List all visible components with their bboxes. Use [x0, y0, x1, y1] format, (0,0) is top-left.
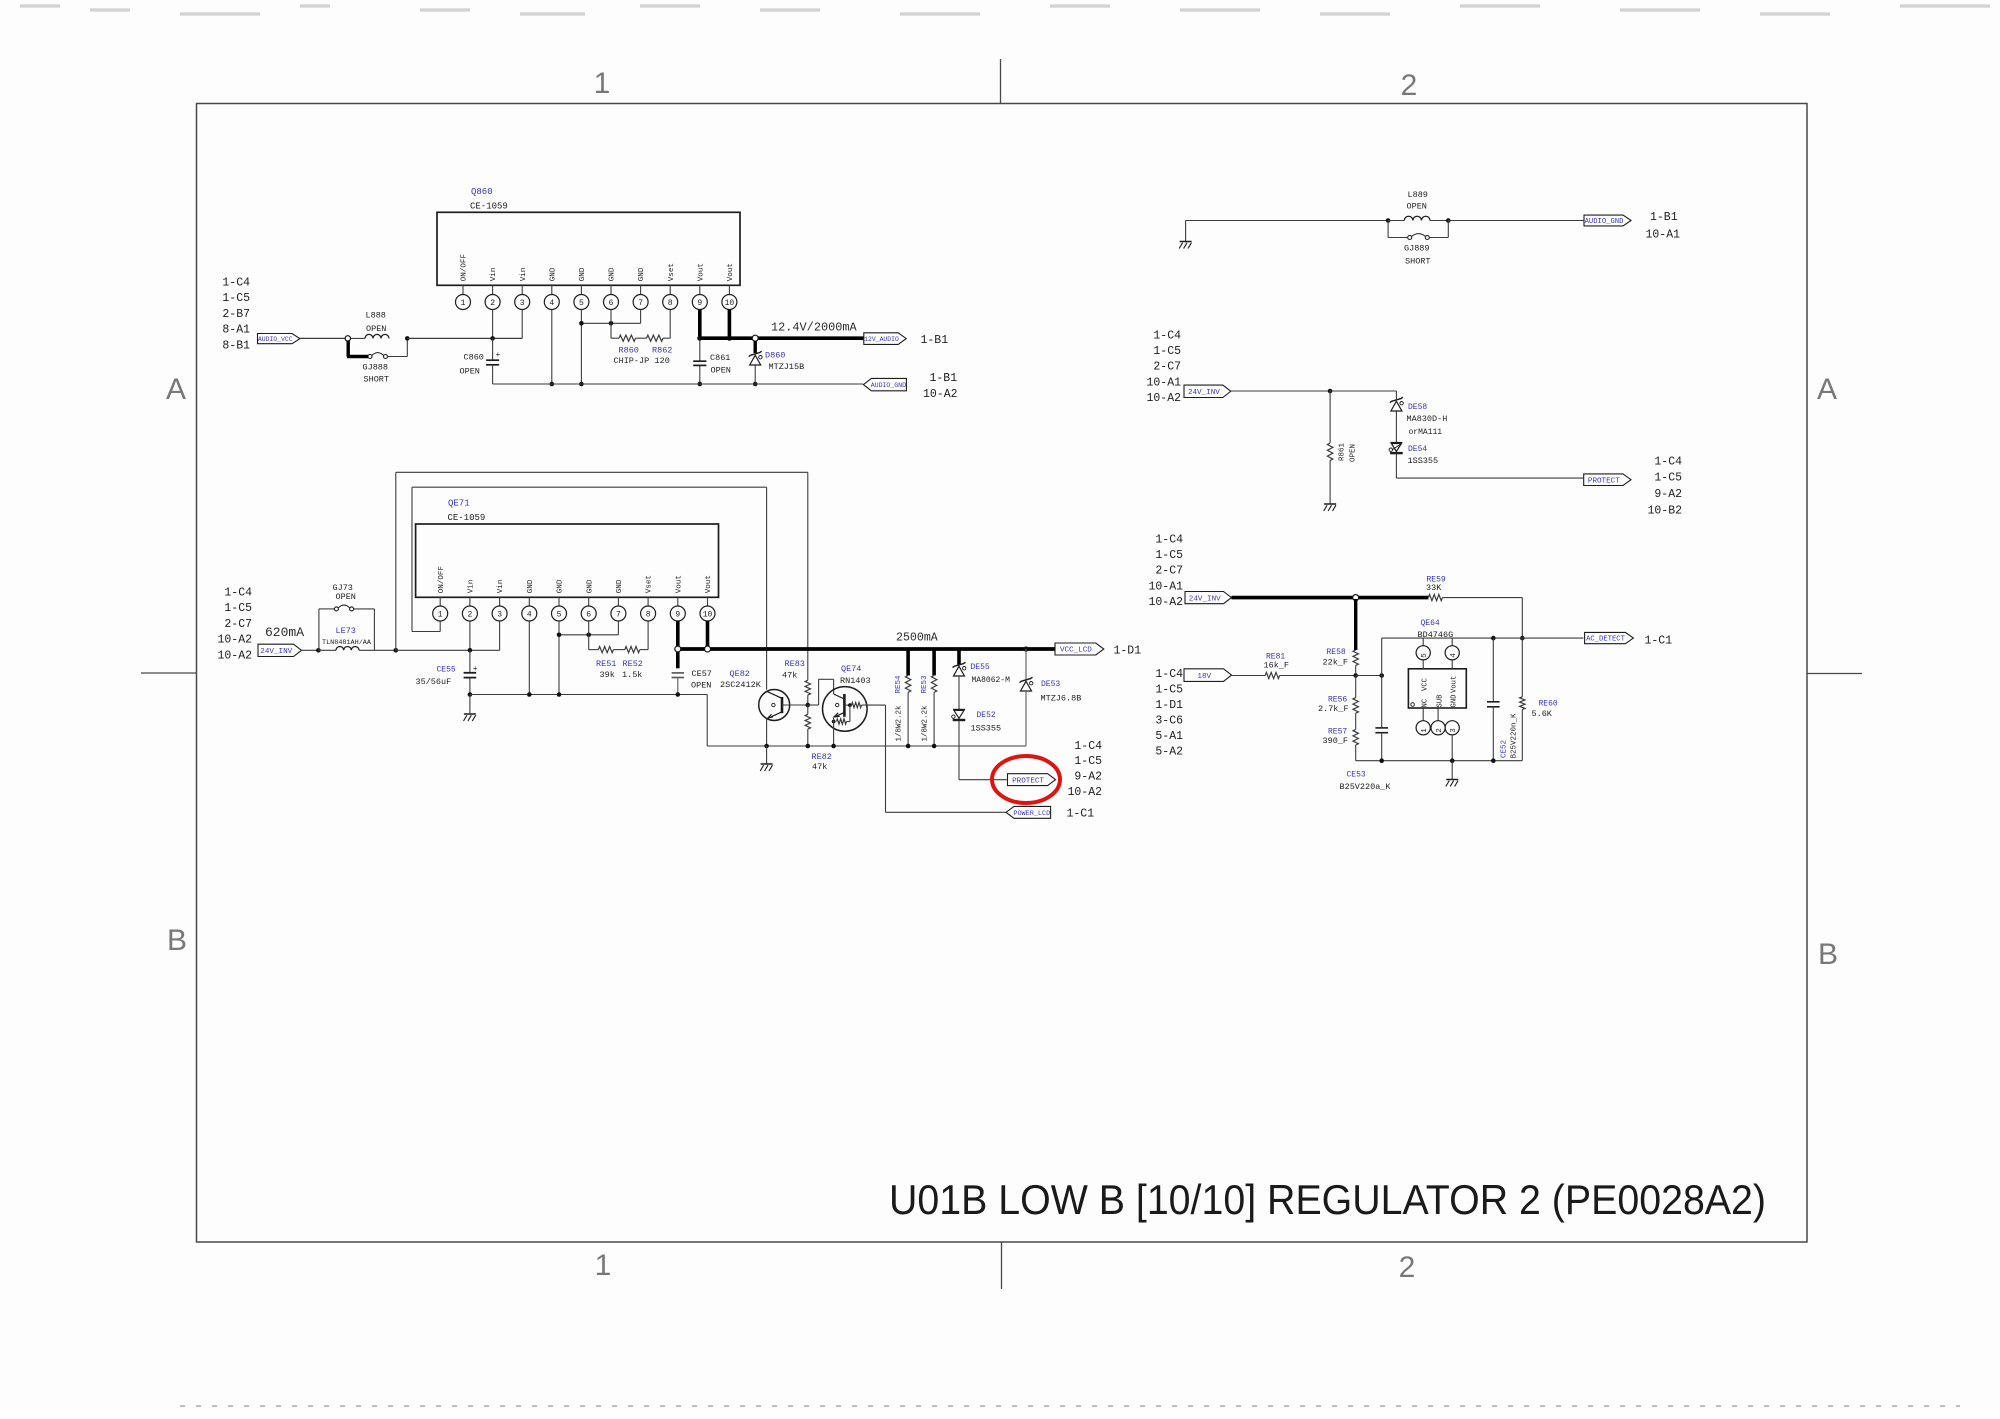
svg-text:OPEN: OPEN	[366, 324, 386, 334]
wire pin10 thick to 12V bus	[728, 310, 732, 341]
svg-text:7: 7	[616, 610, 621, 619]
svg-text:4: 4	[1450, 653, 1458, 658]
pin 10 (Vout)	[707, 597, 709, 606]
resistor RE81 (16k_F)	[1265, 672, 1279, 678]
svg-text:GND: GND	[616, 579, 624, 593]
svg-text:8: 8	[646, 610, 651, 619]
svg-text:ON/OFF: ON/OFF	[461, 254, 469, 282]
svg-text:MA8062-M: MA8062-M	[972, 676, 1011, 685]
svg-text:35/56uF: 35/56uF	[416, 677, 452, 687]
svg-text:Vout: Vout	[1451, 676, 1459, 693]
svg-text:RE53: RE53	[921, 675, 929, 694]
svg-text:L888: L888	[366, 311, 386, 321]
jumper GJ73 (OPEN) on top edge	[334, 607, 338, 611]
wire DE54 to PROTECT	[1395, 454, 1397, 478]
svg-text:1-B1: 1-B1	[921, 334, 949, 347]
svg-text:10: 10	[725, 299, 735, 308]
resistor RE57 (390_F) vertical	[1355, 713, 1357, 729]
wire pin9 thick to 12V bus	[698, 310, 702, 341]
wire flag to LE73	[302, 649, 319, 651]
svg-text:QE82: QE82	[730, 669, 750, 679]
svg-text:RE58: RE58	[1327, 648, 1346, 657]
wire 24V_INV to R861 node	[1231, 390, 1330, 392]
pin 3 (Vin)	[521, 285, 523, 294]
svg-text:1-D1: 1-D1	[1155, 699, 1183, 712]
net flag PROTECT circled	[1008, 774, 1056, 786]
svg-text:10-A2: 10-A2	[1146, 392, 1181, 405]
svg-text:GND: GND	[586, 579, 594, 593]
junction pin3 rail	[1450, 758, 1455, 763]
svg-text:6: 6	[609, 299, 614, 308]
pin 9 (Vout)	[699, 285, 701, 294]
svg-text:12V_AUDIO: 12V_AUDIO	[864, 336, 899, 343]
svg-text:2: 2	[490, 299, 495, 308]
svg-text:AUDIO_VCC: AUDIO_VCC	[258, 336, 293, 343]
resistor RE51 (39k)	[598, 647, 613, 653]
wire to DE58 corner	[1330, 390, 1396, 392]
svg-text:1-C4: 1-C4	[222, 277, 250, 290]
junction CE55 gnd rail	[468, 692, 473, 697]
svg-text:CE52: CE52	[1501, 740, 1509, 758]
svg-text:1/8W2.2k: 1/8W2.2k	[922, 705, 930, 742]
svg-text:RE83: RE83	[785, 659, 805, 669]
wire pin4 down to AUDIO_GND rail	[551, 310, 553, 385]
svg-text:B: B	[1818, 938, 1838, 971]
svg-text:390_F: 390_F	[1323, 736, 1349, 746]
transistor QE82 (2SC2412K)	[759, 690, 790, 721]
node open circle at L888 input	[345, 336, 350, 341]
pin 7 (GND)	[640, 285, 642, 294]
node circle D860 on bus	[752, 335, 758, 341]
svg-text:OPEN: OPEN	[1350, 444, 1358, 462]
svg-text:NC: NC	[1422, 698, 1430, 707]
QE64 pin 4 (Vout)	[1451, 638, 1453, 646]
AUDIO_GND rail	[493, 383, 863, 385]
diode D860 (MTZJ15B zener)	[754, 341, 757, 353]
wire CE53 column up to AC line, down to rail	[1381, 638, 1383, 675]
diode DE53 (MTZJ6.8B zener)	[1025, 649, 1027, 680]
svg-text:GND: GND	[557, 579, 565, 593]
wire pin5 down	[558, 621, 560, 695]
svg-text:QE71: QE71	[448, 499, 470, 509]
svg-text:1-B1: 1-B1	[930, 372, 958, 385]
svg-text:3-C6: 3-C6	[1155, 715, 1183, 728]
svg-text:10-A2: 10-A2	[923, 388, 958, 401]
svg-text:GND: GND	[638, 267, 646, 281]
svg-text:10-A1: 10-A1	[1148, 580, 1183, 593]
svg-text:GND: GND	[1451, 695, 1459, 708]
ground symbol under QE82	[766, 746, 768, 764]
svg-text:10-A2: 10-A2	[217, 649, 252, 662]
svg-text:2-C7: 2-C7	[1153, 361, 1181, 374]
node circle pin10 bus	[705, 646, 711, 652]
wire node to CE53 column	[1356, 675, 1382, 677]
net flag 24V_INV right	[1185, 592, 1232, 604]
junction R861 top	[1328, 389, 1333, 394]
junction DE53 bus	[1023, 646, 1028, 651]
svg-text:TLN8481AH/AA: TLN8481AH/AA	[322, 639, 372, 647]
diode DE55 (MA8062-M)	[957, 649, 961, 665]
resistor R861 (OPEN) vertical	[1329, 391, 1331, 443]
svg-text:1/8W2.2k: 1/8W2.2k	[896, 705, 904, 742]
svg-text:39k: 39k	[600, 670, 615, 680]
QE64 pin 3 (GND)	[1445, 721, 1459, 735]
wire L888 node to pin2/pin3	[407, 337, 522, 339]
svg-text:9-A2: 9-A2	[1074, 771, 1102, 784]
capacitor CE55 (35V/56uF polarized)	[469, 650, 471, 673]
24V_INV thick bus right	[1232, 596, 1429, 600]
wire pin2 down	[492, 310, 494, 339]
jumper GJ889 (SHORT) below	[1387, 221, 1389, 238]
svg-text:AUDIO_GND: AUDIO_GND	[1585, 218, 1624, 226]
svg-text:Vin: Vin	[520, 268, 528, 282]
svg-text:OPEN: OPEN	[336, 592, 356, 602]
junction tie pin6	[586, 633, 591, 638]
svg-text:CE-1059: CE-1059	[470, 202, 508, 212]
capacitor CE53 (B25V220a_K)	[1375, 727, 1388, 729]
net flag 18V	[1184, 669, 1232, 682]
svg-text:Q860: Q860	[471, 187, 493, 197]
wire base node step to QE74	[808, 704, 819, 706]
svg-text:R861: R861	[1339, 442, 1347, 461]
svg-text:47k: 47k	[812, 762, 827, 772]
AC_DETECT junctions	[1491, 636, 1496, 641]
svg-text:9: 9	[675, 610, 680, 619]
svg-text:Vin: Vin	[468, 580, 476, 594]
svg-text:2: 2	[1399, 1251, 1416, 1284]
svg-text:A: A	[1817, 373, 1837, 406]
svg-text:2500mA: 2500mA	[896, 632, 938, 645]
inductor L889 (OPEN)	[1388, 220, 1404, 222]
wire pins5-6-7 tie	[559, 634, 618, 636]
svg-text:2.7k_F: 2.7k_F	[1318, 704, 1349, 714]
resistor RE52 (1.5k)	[625, 647, 640, 653]
svg-text:DE55: DE55	[971, 663, 990, 672]
svg-text:RE82: RE82	[812, 752, 832, 762]
junction pin4 gnd	[527, 692, 532, 697]
svg-text:24V_INV: 24V_INV	[1188, 389, 1220, 397]
svg-text:5: 5	[557, 610, 562, 619]
resistor RE60 (5.6K) vertical	[1521, 638, 1523, 697]
pin 10 (Vout)	[728, 285, 730, 294]
svg-text:MA830D-H: MA830D-H	[1407, 414, 1448, 424]
svg-text:DE53: DE53	[1041, 680, 1060, 689]
red circle highlight around PROTECT	[992, 756, 1060, 803]
pin 1 (ON/OFF)	[462, 285, 464, 294]
wire gnd to L889	[1186, 220, 1389, 222]
IC QE64 body (BD4746G)	[1408, 669, 1466, 708]
svg-text:5: 5	[579, 299, 584, 308]
resistor RE82 (47k) vertical	[807, 705, 809, 714]
wire RE51 to RE52	[613, 649, 624, 651]
svg-text:2-C7: 2-C7	[1155, 565, 1183, 578]
svg-text:Vout: Vout	[697, 263, 705, 281]
svg-text:47k: 47k	[782, 670, 797, 680]
row tick right	[1807, 673, 1862, 675]
junction RE82 rail	[806, 744, 811, 749]
svg-text:OPEN: OPEN	[1407, 202, 1427, 212]
resistor RE56 (2.7k_F) vertical	[1355, 676, 1357, 698]
junction pin5 gnd rail	[579, 382, 584, 387]
svg-text:24V_INV: 24V_INV	[1189, 595, 1221, 603]
svg-text:9: 9	[697, 299, 702, 308]
svg-text:1-C5: 1-C5	[1155, 549, 1183, 562]
svg-text:1-C1: 1-C1	[1645, 635, 1673, 648]
svg-text:1: 1	[594, 67, 611, 100]
svg-text:5-A2: 5-A2	[1155, 746, 1183, 759]
svg-text:1-C4: 1-C4	[1153, 330, 1181, 343]
svg-text:3: 3	[520, 299, 525, 308]
svg-text:10-A1: 10-A1	[1146, 376, 1181, 389]
junction RE58/RE56 node	[1353, 673, 1358, 678]
net flag VCC_LCD	[1055, 643, 1104, 655]
pin 7 (GND)	[617, 597, 619, 606]
svg-text:GND: GND	[549, 267, 557, 281]
pin 3 (Vin)	[499, 597, 501, 606]
diode DE58 (MA830D-H)	[1395, 391, 1397, 400]
svg-text:Vout: Vout	[705, 575, 713, 593]
svg-text:1SS355: 1SS355	[971, 724, 1002, 734]
svg-text:1-C4: 1-C4	[1155, 534, 1183, 547]
wire pin6 down to resistor row	[610, 310, 612, 324]
svg-text:1SS355: 1SS355	[1408, 456, 1439, 466]
svg-text:1-C4: 1-C4	[224, 587, 252, 600]
capacitor C861 (OPEN)	[699, 340, 701, 361]
node circle RE58 tap	[1353, 595, 1359, 601]
svg-text:DE58: DE58	[1408, 403, 1427, 412]
junction CE57 gnd	[676, 692, 681, 697]
net flag 24V_INV left	[258, 644, 302, 656]
gnd rail QE71	[470, 694, 707, 696]
junction QE82 emitter rail	[764, 744, 769, 749]
wire AUDIO_VCC to L888 node	[300, 337, 345, 339]
svg-text:24V_INV: 24V_INV	[260, 648, 292, 656]
QE64 pin 5 (VCC)	[1422, 638, 1424, 646]
QE64 pin 1 (NC)	[1422, 708, 1424, 721]
junction pin10 bus	[727, 336, 732, 341]
svg-text:RN1403: RN1403	[840, 676, 871, 686]
svg-text:1-C4: 1-C4	[1155, 668, 1183, 681]
svg-text:10-A2: 10-A2	[1067, 786, 1102, 799]
net flag AUDIO_GND left-pointing	[863, 378, 906, 390]
node circle pin9 bus	[675, 646, 681, 652]
svg-text:GND: GND	[579, 267, 587, 281]
wire DE58 to DE54	[1395, 412, 1397, 443]
svg-text:120: 120	[655, 356, 670, 366]
junction pin2	[490, 336, 495, 341]
resistor R862 (120)	[647, 335, 664, 341]
svg-text:2-B7: 2-B7	[222, 308, 250, 321]
svg-text:OPEN: OPEN	[691, 681, 711, 691]
svg-text:7: 7	[638, 299, 643, 308]
pin 5 (GND)	[558, 597, 560, 606]
wire pin3 down	[521, 310, 523, 339]
wire 18V to RE81	[1232, 675, 1266, 677]
svg-text:33K: 33K	[1426, 583, 1442, 593]
junction QE74 emitter rail	[831, 744, 836, 749]
svg-text:8: 8	[668, 299, 673, 308]
svg-text:1-C4: 1-C4	[1074, 740, 1102, 753]
wire pin6 down to RE51 row	[588, 621, 590, 635]
svg-text:RE52: RE52	[623, 659, 643, 669]
pin 9 (Vout)	[677, 597, 679, 606]
inductor LE73 (TLN8481AH/AA)	[318, 649, 336, 651]
svg-text:Vout: Vout	[675, 575, 683, 593]
pin 5 (GND)	[580, 285, 582, 294]
svg-text:GND: GND	[609, 267, 617, 281]
wire pin9 thick to VCC bus and CE57	[676, 621, 680, 668]
svg-text:1: 1	[461, 299, 466, 308]
svg-text:B25V220a_K: B25V220a_K	[1340, 782, 1392, 792]
svg-text:10-A2: 10-A2	[217, 634, 252, 647]
svg-text:1-C5: 1-C5	[1074, 755, 1102, 768]
svg-text:2-C7: 2-C7	[224, 618, 252, 631]
svg-text:1-D1: 1-D1	[1114, 645, 1142, 658]
resistor RE59 (33K)	[1428, 595, 1442, 601]
junction pin5 tie	[579, 321, 584, 326]
resistor R860 (CHIP-JP)	[619, 335, 636, 341]
wire QE82 emitter down	[766, 718, 768, 746]
wire 24V line to pins 2,3	[396, 649, 500, 651]
svg-text:5.6K: 5.6K	[1532, 709, 1553, 719]
junction pin5 gnd	[557, 692, 562, 697]
svg-text:U01B LOW B [10/10] REGULATOR 2: U01B LOW B [10/10] REGULATOR 2 (PE0028A2…	[889, 1176, 1766, 1223]
jumper GJ888 (SHORT)	[368, 355, 372, 359]
resistor RE54 (1/8W2.2k) vertical	[906, 649, 910, 675]
resistor RE83 (47k) vertical	[805, 680, 810, 695]
wire pin3 down	[499, 621, 501, 650]
svg-text:10-B2: 10-B2	[1647, 504, 1682, 517]
net flag AUDIO_VCC	[258, 334, 301, 344]
junction outer loop corner	[394, 648, 399, 653]
QE64 pin 2 (SUB)	[1437, 708, 1439, 721]
svg-text:5: 5	[1421, 653, 1429, 658]
wire pin4 down	[528, 621, 530, 695]
svg-text:6: 6	[586, 610, 591, 619]
junction LE73 left	[316, 648, 321, 653]
junction RE54 rail	[906, 744, 911, 749]
svg-text:Vin: Vin	[497, 580, 505, 594]
pin 8 (Vset)	[647, 597, 649, 606]
svg-text:CE-1059: CE-1059	[448, 513, 486, 523]
svg-text:2: 2	[467, 610, 472, 619]
wire RE59 down to AC_DETECT line	[1521, 598, 1523, 639]
pin 1 (ON/OFF)	[439, 597, 441, 606]
svg-text:D860: D860	[765, 351, 785, 361]
svg-text:GJ888: GJ888	[363, 363, 389, 373]
pin 6 (GND)	[588, 597, 590, 606]
ground symbol under QE64	[1451, 761, 1453, 779]
svg-text:R860: R860	[619, 346, 639, 356]
ground symbol top right	[1185, 221, 1187, 242]
svg-text:3: 3	[1450, 728, 1458, 733]
svg-text:AUDIO_GND: AUDIO_GND	[871, 382, 906, 389]
wire QE74 emitter down	[833, 718, 835, 746]
column tick top	[1000, 59, 1002, 104]
svg-text:RE54: RE54	[895, 675, 903, 694]
wire R860 to R862	[636, 337, 647, 339]
svg-text:22k_F: 22k_F	[1323, 658, 1349, 668]
transistor QE74 (RN1403 digital)	[823, 687, 868, 732]
svg-text:2: 2	[1436, 728, 1444, 733]
svg-text:MTZJ6.8B: MTZJ6.8B	[1041, 694, 1082, 704]
wire pin2 down	[469, 621, 471, 650]
svg-text:CE55: CE55	[437, 666, 456, 675]
svg-text:620mA: 620mA	[265, 625, 304, 640]
svg-text:CE53: CE53	[1347, 771, 1366, 780]
svg-text:ON/OFF: ON/OFF	[438, 566, 446, 594]
net flag AUDIO_GND right block	[1584, 215, 1631, 226]
junction base node	[806, 703, 811, 708]
svg-text:PROTECT: PROTECT	[1588, 477, 1620, 485]
svg-text:4: 4	[527, 610, 532, 619]
wire thick jumper path down	[347, 341, 350, 357]
svg-text:10-A1: 10-A1	[1646, 229, 1681, 242]
svg-text:1-C5: 1-C5	[1155, 684, 1183, 697]
svg-text:GND: GND	[527, 579, 535, 593]
QE74 internal base resistor R1	[844, 704, 850, 706]
svg-text:Vset: Vset	[646, 575, 654, 593]
svg-text:R862: R862	[652, 346, 672, 356]
pin 2 (Vin)	[469, 597, 471, 606]
svg-text:RE60: RE60	[1539, 700, 1558, 709]
svg-text:8-A1: 8-A1	[222, 324, 250, 337]
IC QE71 body (CE-1059)	[416, 524, 719, 597]
svg-text:RE51: RE51	[596, 659, 616, 669]
svg-text:1-C1: 1-C1	[1067, 808, 1095, 821]
diode DE54 (1SS355)	[1390, 442, 1402, 444]
scan artifact bottom dotted line	[180, 1405, 1960, 1407]
svg-text:CE57: CE57	[692, 669, 712, 679]
AC_DETECT top line	[1382, 637, 1584, 639]
svg-text:1: 1	[438, 610, 443, 619]
wire DE52 to PROTECT	[958, 720, 960, 779]
IC Q860 body (CE-1059)	[437, 212, 740, 285]
net flag 12V_AUDIO out	[864, 333, 906, 345]
junction RE53 rail	[932, 744, 937, 749]
LE73 component box outline	[318, 609, 320, 650]
svg-text:PROTECT: PROTECT	[1012, 777, 1044, 785]
svg-text:OPEN: OPEN	[460, 367, 480, 377]
svg-text:1-C5: 1-C5	[1153, 345, 1181, 358]
svg-text:SHORT: SHORT	[364, 375, 390, 385]
svg-text:AC_DETECT: AC_DETECT	[1586, 636, 1626, 644]
svg-text:1-C5: 1-C5	[224, 602, 252, 615]
svg-text:DE52: DE52	[977, 711, 996, 720]
junction tie pin5	[557, 633, 562, 638]
junction L889 right	[1446, 218, 1451, 223]
svg-text:C861: C861	[710, 353, 730, 363]
svg-text:1: 1	[1421, 728, 1429, 733]
svg-text:L889: L889	[1408, 190, 1428, 200]
junction RE59/RE60	[1520, 636, 1525, 641]
svg-text:OPEN: OPEN	[711, 366, 731, 376]
page border frame	[197, 104, 1808, 1243]
svg-text:GJ889: GJ889	[1404, 244, 1430, 254]
wire pins 5-6-7 tie	[580, 310, 582, 324]
svg-text:QE74: QE74	[841, 664, 861, 674]
svg-text:QE64: QE64	[1421, 619, 1440, 628]
junction L888 output	[405, 336, 410, 341]
QE74 internal resistor R2	[849, 705, 851, 721]
svg-text:5-A1: 5-A1	[1155, 730, 1183, 743]
net flag 24V_INV upper	[1184, 385, 1231, 397]
svg-text:Vin: Vin	[490, 268, 498, 282]
wire outer feedback loop (left/top/right)	[395, 472, 397, 650]
scan artifact top	[20, 6, 1990, 14]
pin 6 (GND)	[610, 285, 612, 294]
wire RE52 to pin8	[640, 649, 648, 651]
